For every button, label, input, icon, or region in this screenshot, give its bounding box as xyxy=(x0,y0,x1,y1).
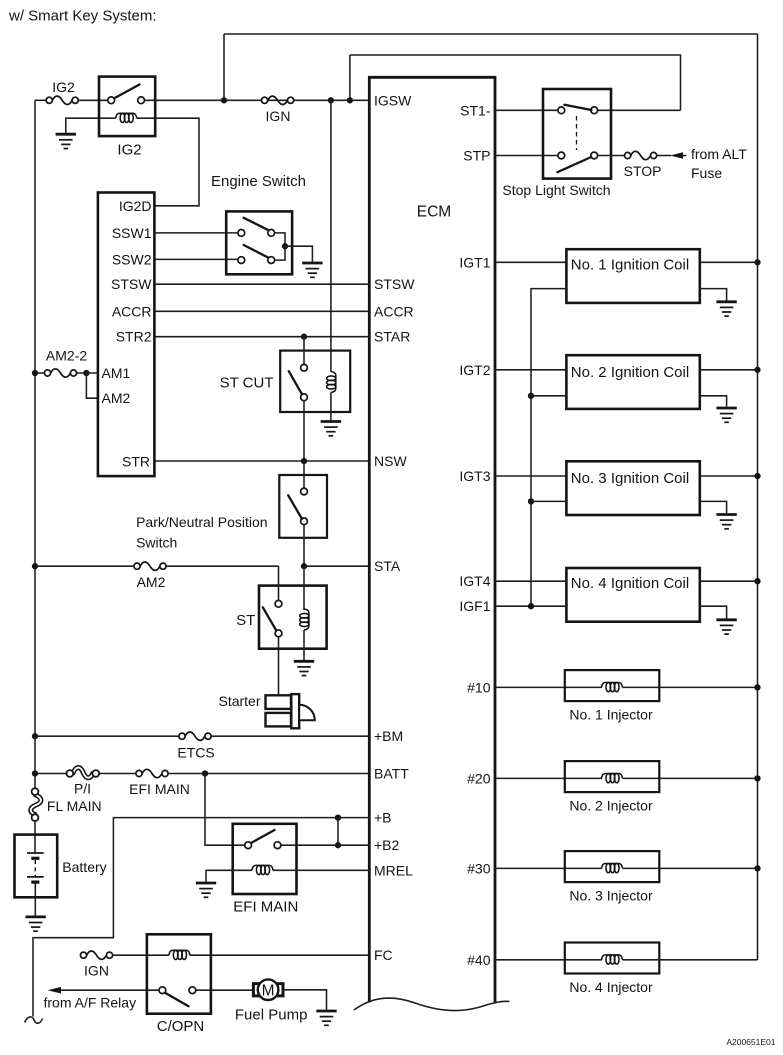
svg-text:AM2: AM2 xyxy=(102,390,131,406)
ignition coil 1 box xyxy=(566,249,699,303)
node: +B junction xyxy=(335,814,341,820)
node: junction on IGN wire to top line xyxy=(221,97,227,103)
SSW2 contacts xyxy=(238,257,245,264)
wire: MREL coil to ECM xyxy=(273,869,369,871)
wire: ST coil to ground xyxy=(303,630,305,660)
svg-text:ST: ST xyxy=(236,612,255,629)
wire: A/F relay line to C/OPN contact xyxy=(58,989,159,991)
wire: coil4 ground xyxy=(700,606,727,618)
svg-text:STSW: STSW xyxy=(111,276,152,292)
relay IG2 box xyxy=(99,77,155,137)
svg-text:IGSW: IGSW xyxy=(374,92,412,108)
wire: coil1 ground xyxy=(700,289,727,301)
svg-text:No. 4 Ignition Coil: No. 4 Ignition Coil xyxy=(571,575,689,592)
STP contacts xyxy=(558,152,565,159)
wire STR/NSW to ECM xyxy=(155,460,370,462)
ground EFI MAIN xyxy=(196,883,216,897)
STP blade xyxy=(557,157,591,172)
wire: injector1 to bus xyxy=(623,686,758,688)
fuse EFI MAIN xyxy=(136,769,168,777)
svg-text:SSW2: SSW2 xyxy=(112,251,152,267)
EFI MAIN blade xyxy=(251,830,275,843)
wire: BATT net y=773.5 xyxy=(35,773,66,775)
node: bus coil1 xyxy=(754,259,760,265)
svg-text:P/I: P/I xyxy=(74,781,91,797)
break squiggle bottom left xyxy=(25,1017,43,1023)
svg-text:Battery: Battery xyxy=(62,859,106,875)
ST CUT contacts xyxy=(301,364,308,371)
fuse AM2 xyxy=(134,562,166,570)
node: bus coil3 xyxy=(754,473,760,479)
wire: right bus vertical xyxy=(757,34,759,960)
park/neutral switch box xyxy=(279,475,327,538)
svg-text:STOP: STOP xyxy=(624,163,662,179)
wire: +B net y=817.6 xyxy=(33,818,369,1017)
starter symbol xyxy=(266,695,292,709)
ST1- blade xyxy=(564,105,591,110)
svg-text:EFI MAIN: EFI MAIN xyxy=(233,899,298,916)
SSW1 contacts xyxy=(238,230,245,237)
svg-text:STAR: STAR xyxy=(374,329,410,345)
wire: coil4 right to bus xyxy=(700,580,758,582)
wire: STP to STOP fuse xyxy=(598,155,625,157)
fuse IGN top xyxy=(262,96,294,104)
wire: C/OPN to fuel pump xyxy=(196,989,253,991)
svg-text:No. 3 Ignition Coil: No. 3 Ignition Coil xyxy=(571,470,689,487)
wire: ST bottom contact to starter xyxy=(278,637,280,695)
wire: left bus vertical xyxy=(34,100,36,788)
svg-text:C/OPN: C/OPN xyxy=(157,1018,205,1035)
wire: AM2/STA net y=566 xyxy=(35,565,134,567)
wire: NSW dot to P/N top contact xyxy=(303,461,305,488)
svg-text:No. 2 Ignition Coil: No. 2 Ignition Coil xyxy=(571,364,689,381)
wire: IG2 coil to IG2D pin xyxy=(137,118,199,206)
wire: vertical to top line 1 xyxy=(223,34,225,100)
wire STR2/STAR to ECM xyxy=(155,336,370,338)
ground ST xyxy=(294,661,314,675)
wire: P/N bottom contact to STA wire xyxy=(303,525,305,567)
wire SSW2 xyxy=(155,258,238,260)
svg-text:Fuel Pump: Fuel Pump xyxy=(235,1007,308,1024)
arrow from A/F relay xyxy=(48,987,62,994)
ground coil1 xyxy=(716,302,736,316)
EFI MAIN contacts xyxy=(245,842,252,849)
wire: top line 2 xyxy=(350,55,681,110)
svg-text:ECM: ECM xyxy=(417,204,451,221)
svg-text:STP: STP xyxy=(463,148,490,164)
node: bus injector3 xyxy=(754,865,760,871)
wire and arrow from ALT fuse xyxy=(657,155,671,157)
wire #30 xyxy=(495,867,602,869)
wire: IG2 coil to ground xyxy=(66,118,116,133)
relay C/OPN box xyxy=(147,934,211,1013)
svg-text:from A/F Relay: from A/F Relay xyxy=(44,995,137,1011)
wire IGT3 xyxy=(495,475,566,477)
wire: BATT tap down to EFI MAIN relay xyxy=(205,774,245,846)
svg-text:+B2: +B2 xyxy=(374,837,400,853)
svg-text:No. 3 Injector: No. 3 Injector xyxy=(569,887,653,903)
wire: ST1- to stop light switch xyxy=(495,109,558,111)
svg-text:IG2D: IG2D xyxy=(119,198,152,214)
svg-text:IGT2: IGT2 xyxy=(459,362,490,378)
wire: engine switch common link xyxy=(275,233,285,260)
P/N contacts xyxy=(301,488,308,495)
node: junction ST CUT coil feed xyxy=(328,97,334,103)
svg-text:ST1-: ST1- xyxy=(460,102,491,118)
svg-text:IGT3: IGT3 xyxy=(459,468,490,484)
wire IGT1 xyxy=(495,261,566,263)
node: STAR junction to ST CUT xyxy=(301,334,307,340)
wire: ST CUT bottom contact down to NSW xyxy=(303,401,305,461)
wire: main IGN net y=100 xyxy=(35,99,46,101)
wire IGT4 xyxy=(495,580,566,582)
connector box (engine switch connector) xyxy=(98,193,154,477)
ignition coil 4 box xyxy=(566,568,699,622)
EFI MAIN coil xyxy=(252,865,273,874)
wire: ST CUT coil to ground xyxy=(330,393,332,421)
node: left bus BATT junction xyxy=(32,770,38,776)
svg-text:#10: #10 xyxy=(467,679,491,695)
wire IGF1 to coil4 xyxy=(495,605,566,607)
ground fuel pump xyxy=(316,1011,336,1025)
svg-text:Fuse: Fuse xyxy=(691,165,722,181)
wire: IGF bus vertical xyxy=(531,289,566,607)
node: bus coil2 xyxy=(754,367,760,373)
svg-text:AM2: AM2 xyxy=(137,574,166,590)
node: bus injector1 xyxy=(754,684,760,690)
wire: coil2 IGF stub xyxy=(531,395,566,397)
battery box xyxy=(15,835,58,898)
SSW1 blade xyxy=(244,218,268,230)
wire: AM2-2 net y=373 xyxy=(35,372,44,374)
wire: IGN fuse to C/OPN coil xyxy=(112,954,169,956)
svg-text:ACCR: ACCR xyxy=(374,303,414,319)
wire SSW1 xyxy=(155,232,238,234)
wire ACCR to ECM xyxy=(155,310,370,312)
wire: fuel pump to ground xyxy=(283,990,327,1010)
ground coil3 xyxy=(716,515,736,529)
node: engine switch common junction xyxy=(282,243,288,249)
svg-text:No. 2 Injector: No. 2 Injector xyxy=(569,797,653,813)
C/OPN contacts xyxy=(159,987,166,994)
wire: coil2 right to bus xyxy=(700,369,758,371)
stop light switch dashed link xyxy=(576,116,578,150)
ignition coil 3 box xyxy=(566,461,699,515)
fuse IGN bottom xyxy=(80,951,112,959)
C/OPN blade xyxy=(165,993,189,1007)
ground coil2 xyxy=(716,408,736,422)
fuel pump motor M1 xyxy=(253,984,259,996)
wire #10 xyxy=(495,686,602,688)
fusible link FL MAIN (vertical) xyxy=(31,788,41,821)
fusible link P/I xyxy=(66,768,99,778)
ground coil4 xyxy=(716,620,736,634)
wire: +B2 from relay to ECM xyxy=(281,844,369,846)
svg-text:IGT4: IGT4 xyxy=(459,573,490,589)
svg-text:No. 1 Injector: No. 1 Injector xyxy=(569,706,653,722)
svg-text:EFI MAIN: EFI MAIN xyxy=(129,781,190,797)
node: left bus AM2 junction xyxy=(32,563,38,569)
wire: injector2 to bus xyxy=(623,777,758,779)
node: bus injector2 xyxy=(754,775,760,781)
node: IGF bus coil4 xyxy=(528,603,534,609)
node: bus coil4 xyxy=(754,578,760,584)
IG2 switch contacts xyxy=(108,97,115,104)
wire: coil2 ground xyxy=(700,396,727,407)
node: STA junction xyxy=(301,563,307,569)
svg-text:IGT1: IGT1 xyxy=(459,254,490,270)
wire: coil3 right to bus xyxy=(700,475,758,477)
battery symbol xyxy=(27,852,44,854)
svg-text:FL MAIN: FL MAIN xyxy=(47,798,102,814)
svg-text:#20: #20 xyxy=(467,770,491,786)
wire: FC coil to ECM xyxy=(190,954,369,956)
wire: AM2 tap down to ST switch xyxy=(278,566,280,600)
svg-text:AM1: AM1 xyxy=(102,365,131,381)
ground IG2 xyxy=(56,134,76,148)
svg-text:M: M xyxy=(262,982,275,999)
svg-text:A200651E01: A200651E01 xyxy=(726,1037,775,1047)
node: +B2 junction xyxy=(335,842,341,848)
svg-text:ACCR: ACCR xyxy=(112,303,152,319)
wire STSW to ECM xyxy=(155,283,370,285)
svg-text:IGF1: IGF1 xyxy=(459,598,490,614)
injector 1 coil xyxy=(602,683,623,692)
ST blade xyxy=(263,607,276,630)
svg-text:Starter: Starter xyxy=(218,693,260,709)
wire: vertical to top line 2 xyxy=(349,55,351,100)
svg-text:IG2: IG2 xyxy=(117,142,141,159)
IG2 switch blade xyxy=(114,85,139,99)
svg-text:MREL: MREL xyxy=(374,862,413,878)
injector 3 coil xyxy=(602,864,623,873)
ECM bottom break wave xyxy=(354,998,510,1010)
node: BATT junction to EFI relay xyxy=(202,770,208,776)
IG2 relay coil xyxy=(116,113,137,122)
injector 2 coil xyxy=(602,774,623,783)
wire: STA dot down through ST coil xyxy=(303,566,305,610)
wire: coil3 ground xyxy=(700,501,727,513)
svg-text:Stop Light Switch: Stop Light Switch xyxy=(502,182,610,198)
injector 4 coil xyxy=(602,955,623,964)
wire: split down to AM2 pin xyxy=(86,373,98,398)
stop light switch box xyxy=(543,89,611,179)
svg-text:+BM: +BM xyxy=(374,728,403,744)
wire: STP to stop light switch xyxy=(495,155,558,157)
ground ST CUT xyxy=(321,422,341,436)
svg-text:#30: #30 xyxy=(467,860,491,876)
svg-text:STSW: STSW xyxy=(374,276,415,292)
svg-text:ETCS: ETCS xyxy=(177,745,214,761)
node: IGF bus coil3 xyxy=(528,498,534,504)
wire #40 xyxy=(495,959,602,961)
wire: EFI coil to ground xyxy=(206,870,252,882)
svg-text:Switch: Switch xyxy=(136,534,177,550)
ECM box U1 xyxy=(369,77,495,1003)
wire: top line 1 across to right bus xyxy=(224,33,758,35)
wire: injector4 to bus corner xyxy=(623,959,758,961)
svg-text:NSW: NSW xyxy=(374,453,407,469)
wire: injector3 to bus xyxy=(623,867,758,869)
P/N blade xyxy=(288,495,302,519)
injector 3 box xyxy=(565,851,660,882)
svg-text:STR: STR xyxy=(122,454,150,470)
node: left bus +BM junction xyxy=(32,733,38,739)
ground engine switch xyxy=(302,263,322,277)
C/OPN coil xyxy=(169,950,190,959)
wire IGT2 xyxy=(495,369,566,371)
svg-text:ST CUT: ST CUT xyxy=(220,374,274,391)
wire: +BM net y=736 xyxy=(35,735,179,737)
wire: common to ground xyxy=(285,246,312,262)
ST contacts xyxy=(275,600,282,607)
injector 4 box xyxy=(565,943,660,974)
svg-text:+B: +B xyxy=(374,810,392,826)
engine switch box xyxy=(226,211,292,274)
svg-text:No. 1 Ignition Coil: No. 1 Ignition Coil xyxy=(571,256,689,273)
node: IGF bus coil2 xyxy=(528,393,534,399)
ST1- contacts xyxy=(558,107,565,114)
wire: FL MAIN to battery xyxy=(34,821,36,853)
wire: coil3 IGF stub xyxy=(531,500,566,502)
svg-text:IG2: IG2 xyxy=(52,79,75,95)
SSW2 blade xyxy=(244,245,268,257)
svg-text:w/ Smart Key System:: w/ Smart Key System: xyxy=(8,8,157,25)
svg-text:No. 4 Injector: No. 4 Injector xyxy=(569,979,653,995)
svg-text:#40: #40 xyxy=(467,952,491,968)
node: NSW junction xyxy=(301,458,307,464)
node: left bus AM2-2 junction xyxy=(32,370,38,376)
wire: STAR dot to top contact xyxy=(303,337,305,365)
wire: ST CUT coil feed vertical xyxy=(330,100,332,371)
fuse IG2 xyxy=(46,96,78,104)
wire #20 xyxy=(495,777,602,779)
relay ST CUT box xyxy=(280,351,350,412)
svg-text:from ALT: from ALT xyxy=(691,146,747,162)
svg-text:IGN: IGN xyxy=(266,108,291,124)
injector 1 box xyxy=(565,670,660,701)
ST CUT blade xyxy=(289,371,302,393)
fuse ETCS xyxy=(179,732,211,740)
ground battery xyxy=(25,917,45,931)
svg-text:SSW1: SSW1 xyxy=(112,225,152,241)
relay EFI MAIN box xyxy=(233,824,297,894)
ignition coil 2 box xyxy=(566,355,699,409)
fuse AM2-2 xyxy=(44,369,76,377)
svg-text:STR2: STR2 xyxy=(116,329,152,345)
svg-text:Engine Switch: Engine Switch xyxy=(211,173,306,190)
svg-text:STA: STA xyxy=(374,558,401,574)
wire: fuse IG2 to relay xyxy=(79,99,108,101)
wire: battery to ground xyxy=(34,884,36,916)
node: junction to line 2 xyxy=(347,97,353,103)
injector 2 box xyxy=(565,761,660,792)
svg-text:Park/Neutral Position: Park/Neutral Position xyxy=(136,514,268,530)
svg-text:AM2-2: AM2-2 xyxy=(46,348,87,364)
wire: IG2 relay to ECM IGSW xyxy=(145,99,370,101)
ST CUT coil (vertical) xyxy=(327,372,336,393)
svg-text:FC: FC xyxy=(374,947,393,963)
wire: +B to +B2 link xyxy=(337,818,339,846)
node: AM1/AM2 split junction xyxy=(83,370,89,376)
relay ST box xyxy=(259,586,327,649)
wire: coil1 right to bus xyxy=(700,261,758,263)
fuse STOP xyxy=(625,151,657,159)
wire: stop light switch to line2 xyxy=(598,109,681,111)
ST coil (vertical) xyxy=(300,609,309,630)
svg-text:IGN: IGN xyxy=(84,963,109,979)
svg-text:BATT: BATT xyxy=(374,766,409,782)
